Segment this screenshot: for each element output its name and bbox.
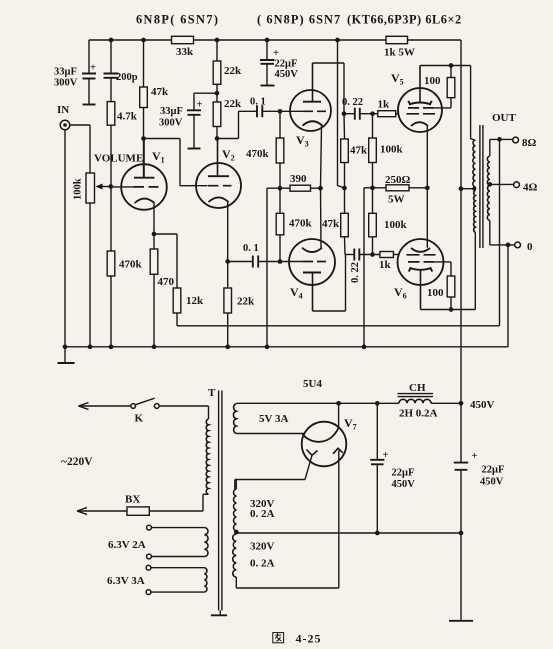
wire: V5 plate node to OPT primary top xyxy=(420,65,471,67)
ground symbol (PSU) xyxy=(449,620,473,622)
beam tetrode V5 (output, upper) xyxy=(398,88,442,132)
svg-text:22μF: 22μF xyxy=(482,465,505,476)
junction node xyxy=(141,136,146,141)
wire: output tube cathodes xyxy=(426,126,428,248)
junction dots on B+ rail xyxy=(109,38,114,43)
svg-text:5V 3A: 5V 3A xyxy=(259,413,288,425)
wire: V1 cathode to 12k xyxy=(154,234,177,288)
resistor 4.7k xyxy=(107,102,115,126)
junction node xyxy=(449,63,454,68)
junction node xyxy=(108,184,113,189)
wire: V4 cathode up to 390 xyxy=(320,188,323,248)
triode V3 (driver, upper) xyxy=(290,90,331,131)
resistor 100 (V5 screen) xyxy=(447,78,455,98)
V6 screen grid xyxy=(408,261,434,263)
triode V2 (phase splitter) xyxy=(196,163,241,208)
junction node xyxy=(278,109,283,114)
svg-text:33k: 33k xyxy=(176,46,194,58)
junction node xyxy=(375,401,380,406)
wire: V1 plate to V2 grid (direct coupling) xyxy=(144,139,208,186)
resistor 47k (V3 plate load) xyxy=(343,114,346,188)
resistor 22k (V2 plate load) xyxy=(213,102,221,127)
svg-text:390: 390 xyxy=(290,173,307,185)
svg-text:0. 2A: 0. 2A xyxy=(250,558,275,570)
junction node xyxy=(278,186,283,191)
capacitor 22uF 450V (driver B+ filter) xyxy=(266,40,268,85)
svg-text:0. 22: 0. 22 xyxy=(350,262,361,283)
svg-text:( 6N8P) 6SN7: ( 6N8P) 6SN7 xyxy=(257,13,341,27)
svg-text:300V: 300V xyxy=(159,118,183,129)
ground symbol (transformer core) xyxy=(219,611,221,616)
svg-text:0. 1: 0. 1 xyxy=(250,97,266,108)
svg-text:(KT66,6P3P) 6L6×2: (KT66,6P3P) 6L6×2 xyxy=(347,13,462,27)
capacitor 200p xyxy=(110,40,112,102)
junction node xyxy=(215,136,220,141)
wire: input jack to volume pot xyxy=(70,125,90,173)
rectifier tube V7 (5U4) xyxy=(302,422,347,467)
resistor 1k (V5 grid stopper) xyxy=(378,111,396,117)
svg-text:1k: 1k xyxy=(379,259,392,271)
svg-text:6.3V 2A: 6.3V 2A xyxy=(108,539,146,551)
svg-text:22k: 22k xyxy=(224,98,242,110)
svg-text:100k: 100k xyxy=(73,178,84,200)
wire: V7 right anode to 320V winding xyxy=(338,451,340,589)
resistor 47k (V1 plate load) xyxy=(143,40,145,87)
resistor 250ohm 5W (output cathode bias) xyxy=(373,187,428,189)
ground (local, 22uF cap) xyxy=(261,85,275,87)
junction node xyxy=(63,344,68,349)
junction node xyxy=(497,137,502,142)
capacitor 33uF 300V (V2 supply filter) xyxy=(187,110,201,115)
svg-text:100: 100 xyxy=(424,75,441,87)
svg-text:22μF: 22μF xyxy=(392,468,415,479)
capacitor 0.1 (upper coupling) xyxy=(257,105,262,117)
transformer OUT: secondary winding xyxy=(487,156,489,220)
winding 5V 3A xyxy=(233,404,236,434)
svg-text:CH: CH xyxy=(409,382,426,394)
svg-text:0. 2A: 0. 2A xyxy=(250,508,275,520)
svg-text:4-25: 4-25 xyxy=(296,632,322,646)
resistor 33k (B+ dropper) xyxy=(172,36,194,43)
V5 plate electrode xyxy=(409,103,431,105)
svg-text:200p: 200p xyxy=(116,72,138,83)
wire: V2 cathode to lower coupling cap xyxy=(228,261,253,263)
V5 screen grid xyxy=(408,107,434,109)
wire: 4.7k to V1 grid node xyxy=(110,125,112,186)
resistor 1k 5W (driver B+ dropper) xyxy=(386,36,408,43)
svg-text:47k: 47k xyxy=(322,218,340,230)
junction node xyxy=(63,123,67,127)
V5 cathode xyxy=(411,122,428,126)
transformer T: core xyxy=(219,391,222,611)
svg-text:1k: 1k xyxy=(378,99,391,111)
resistor 22k (upper, V2 supply) xyxy=(213,61,221,84)
resistor 470k (V4 grid) xyxy=(279,188,281,261)
winding 320V 0.2A (upper) xyxy=(234,489,237,531)
wire: fuse to transformer primary xyxy=(149,494,208,511)
svg-text:100k: 100k xyxy=(380,144,404,156)
svg-text:22μF: 22μF xyxy=(275,59,298,70)
junction node xyxy=(342,186,347,191)
resistor 470 (V1 cathode) xyxy=(150,249,158,274)
svg-text:450V: 450V xyxy=(480,477,504,488)
capacitor 0.1 (lower coupling) xyxy=(253,256,258,268)
svg-text:IN: IN xyxy=(57,104,69,116)
svg-text:BX: BX xyxy=(125,494,140,506)
ground (local, 33uF cap 2) xyxy=(188,148,201,150)
wire: V3 cathode to 390 xyxy=(321,126,322,189)
transformer OUT: primary winding xyxy=(473,140,475,232)
resistor 100 (V6 screen) xyxy=(447,276,455,297)
V6 plate electrode xyxy=(410,268,432,270)
ground (local, 33uF cap 1) xyxy=(83,104,96,106)
junction node xyxy=(487,182,492,187)
choke CH 2H 0.2A xyxy=(399,399,431,403)
wire: V2 cathode down to 22k xyxy=(227,202,229,288)
svg-text:22k: 22k xyxy=(224,65,242,77)
node 4 ohm tap xyxy=(490,183,514,185)
switch K xyxy=(80,405,131,407)
svg-text:12k: 12k xyxy=(186,295,204,307)
svg-text:OUT: OUT xyxy=(492,112,517,124)
junction node xyxy=(370,185,375,190)
svg-text:~220V: ~220V xyxy=(61,456,93,468)
wire: primary center tap to 450V line xyxy=(461,188,475,190)
resistor 470k (V1 grid leak) xyxy=(110,187,112,348)
svg-text:+: + xyxy=(197,100,203,111)
svg-text:100k: 100k xyxy=(384,219,408,231)
wire: switch to transformer primary xyxy=(159,406,209,419)
triode V1 (input stage) xyxy=(121,164,167,210)
wire: negative feedback line xyxy=(177,325,500,327)
capacitor 0.22 (lower coupling to V6) xyxy=(345,254,354,256)
V6 control grid xyxy=(407,254,436,256)
wire: B+ top rail xyxy=(89,39,461,41)
resistor 100k (V5 grid leak) xyxy=(372,114,374,188)
svg-text:4.7k: 4.7k xyxy=(117,111,138,123)
svg-text:320V: 320V xyxy=(250,541,275,553)
svg-text:0. 22: 0. 22 xyxy=(342,97,363,108)
junction node xyxy=(225,259,230,264)
resistor 22k (V2 cathode load) xyxy=(224,288,232,313)
svg-text:5U4: 5U4 xyxy=(303,378,322,390)
junction node xyxy=(506,243,511,248)
junction node xyxy=(370,252,375,257)
wire: cathode network to ground xyxy=(267,188,280,347)
wire: grid leak node to ground xyxy=(364,188,373,347)
node 8 ohm tap xyxy=(490,139,513,156)
wire: driver B+ feed from rail xyxy=(338,40,345,188)
svg-text:450V: 450V xyxy=(392,479,416,490)
svg-text:8Ω: 8Ω xyxy=(522,137,537,149)
svg-text:450V: 450V xyxy=(275,69,299,80)
node 450V xyxy=(459,401,464,406)
junction node xyxy=(278,259,283,264)
triode V4 (driver, lower - mirrored) xyxy=(289,239,335,285)
svg-text:0: 0 xyxy=(527,241,533,253)
wire: 0 tap to ground rail xyxy=(507,245,509,347)
transformer T: primary winding xyxy=(206,419,208,494)
wire: V1 cathode down xyxy=(153,203,155,249)
svg-text:470k: 470k xyxy=(246,148,270,160)
beam tetrode V6 (output, lower) xyxy=(398,239,444,285)
svg-text:470k: 470k xyxy=(119,259,143,271)
wire: V6 plate node to OPT primary bottom xyxy=(421,232,476,309)
svg-text:33μF: 33μF xyxy=(160,106,183,117)
svg-text:100: 100 xyxy=(427,287,444,299)
V7 filament xyxy=(302,428,338,442)
wire: driver cathode bus xyxy=(280,187,321,189)
capacitor 22uF 450V (PSU filter 2, on 450V line) xyxy=(454,463,468,470)
winding 6.3V 3A xyxy=(146,565,151,570)
node 0 (common) tap xyxy=(490,220,515,245)
junction node xyxy=(459,186,464,191)
resistor 47k (V4 plate load) xyxy=(344,188,347,255)
svg-text:300V: 300V xyxy=(54,78,78,89)
svg-text:0. 1: 0. 1 xyxy=(243,243,259,254)
svg-text:6.3V 3A: 6.3V 3A xyxy=(107,575,145,587)
wire: V7 left anode to 320V winding xyxy=(235,455,312,489)
wire: 8 ohm tap feedback takeoff xyxy=(499,139,501,325)
resistor 390 (driver common cathode) xyxy=(290,185,311,191)
wire: V7 filament to B+ xyxy=(338,403,340,428)
svg-text:47k: 47k xyxy=(350,145,368,157)
fuse BX xyxy=(79,510,128,512)
transformer OUT: core xyxy=(480,125,483,248)
junction node xyxy=(449,307,454,312)
svg-text:22k: 22k xyxy=(237,296,255,308)
svg-text:450V: 450V xyxy=(470,399,495,411)
caption: figure 4-25 xyxy=(273,633,284,643)
svg-text:T: T xyxy=(208,387,216,399)
svg-text:4Ω: 4Ω xyxy=(523,182,538,194)
svg-text:33μF: 33μF xyxy=(54,67,77,78)
wire: B+ line from 5V winding through choke xyxy=(236,402,399,404)
capacitor C 33uF 300V (V1 supply filter) xyxy=(88,40,90,104)
wire: V4 plate to coupling node xyxy=(312,273,314,312)
winding 320V 0.2A (lower) xyxy=(233,534,237,577)
ground symbol (main rail) xyxy=(64,347,66,363)
resistor 1k (V6 grid stopper) xyxy=(380,252,394,258)
svg-text:470k: 470k xyxy=(289,218,313,230)
svg-text:+: + xyxy=(383,450,389,461)
wire: 450V B+ line (rail right end down to PSU) xyxy=(460,40,462,621)
resistor 470k (V3 grid) xyxy=(279,111,281,188)
svg-text:K: K xyxy=(135,413,144,425)
wire: V2 supply node to cap xyxy=(194,93,217,148)
svg-text:6N8P( 6SN7): 6N8P( 6SN7) xyxy=(136,13,219,27)
wire: pot bottom to ground xyxy=(89,203,91,347)
junction node xyxy=(336,401,341,406)
capacitor 0.22 (upper coupling to V5) xyxy=(344,113,355,115)
wire: V2 plate to coupling cap xyxy=(217,111,257,138)
V7 anode left xyxy=(307,450,318,456)
junction node xyxy=(370,111,375,116)
wire: input jack shield to ground rail xyxy=(64,130,66,347)
junction node xyxy=(425,185,430,190)
wire: V3 plate to coupling node xyxy=(312,63,314,102)
junction node xyxy=(215,91,220,96)
svg-text:250Ω: 250Ω xyxy=(385,174,411,186)
junction node xyxy=(342,111,347,116)
svg-text:1k 5W: 1k 5W xyxy=(384,47,415,59)
winding 6.3V 2A xyxy=(147,525,152,530)
svg-text:2H 0.2A: 2H 0.2A xyxy=(399,408,438,420)
V7 anode right xyxy=(333,448,343,454)
svg-text:+: + xyxy=(273,48,279,59)
svg-text:VOLUME: VOLUME xyxy=(94,153,143,165)
junction node xyxy=(152,232,157,237)
svg-text:470: 470 xyxy=(158,276,175,288)
V6 cathode (top) xyxy=(411,248,430,252)
capacitor 22uF 450V (PSU filter 1) xyxy=(376,403,378,533)
resistor 100k (V6 grid leak) xyxy=(372,188,374,255)
junction node xyxy=(375,531,380,536)
wire: 47k to V1 plate xyxy=(143,108,145,178)
svg-text:47k: 47k xyxy=(151,86,169,98)
svg-text:5W: 5W xyxy=(388,194,405,206)
svg-text:+: + xyxy=(90,63,96,74)
V5 control grid xyxy=(407,113,436,115)
resistor 12k (feedback) xyxy=(173,288,181,313)
wire: main ground rail xyxy=(65,346,508,348)
wire: PSU ground line xyxy=(236,532,461,534)
svg-text:+: + xyxy=(472,451,478,462)
